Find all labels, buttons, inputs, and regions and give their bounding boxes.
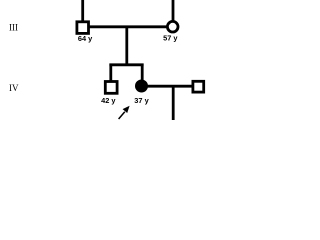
wire: couple line IV <box>146 85 193 88</box>
svg-text:IV: IV <box>9 83 19 93</box>
svg-text:57 y: 57 y <box>163 34 178 43</box>
male IV (42 y) square <box>105 82 117 94</box>
wire: descent line from above to III male <box>81 0 84 22</box>
male IV spouse square <box>193 81 204 92</box>
svg-text:42 y: 42 y <box>101 96 116 105</box>
wire: sibship line IV <box>109 63 143 66</box>
svg-text:III: III <box>9 23 18 33</box>
wire: couple line III <box>88 25 168 28</box>
wire: descent line from above to III female <box>172 0 175 21</box>
proband arrow head <box>123 106 130 113</box>
proband arrow shaft <box>119 112 125 119</box>
svg-text:64 y: 64 y <box>78 34 93 43</box>
affected female IV proband (37 y) filled circle <box>136 80 148 92</box>
wire: drop to IV male <box>109 64 112 82</box>
female III (57 y) circle <box>167 21 178 32</box>
male III (64 y) square <box>77 22 89 34</box>
svg-text:37 y: 37 y <box>134 96 149 105</box>
wire: drop to IV female <box>141 64 144 82</box>
wire: child drop line from IV couple <box>172 86 175 120</box>
wire: drop line from III couple to sibship <box>125 27 128 65</box>
